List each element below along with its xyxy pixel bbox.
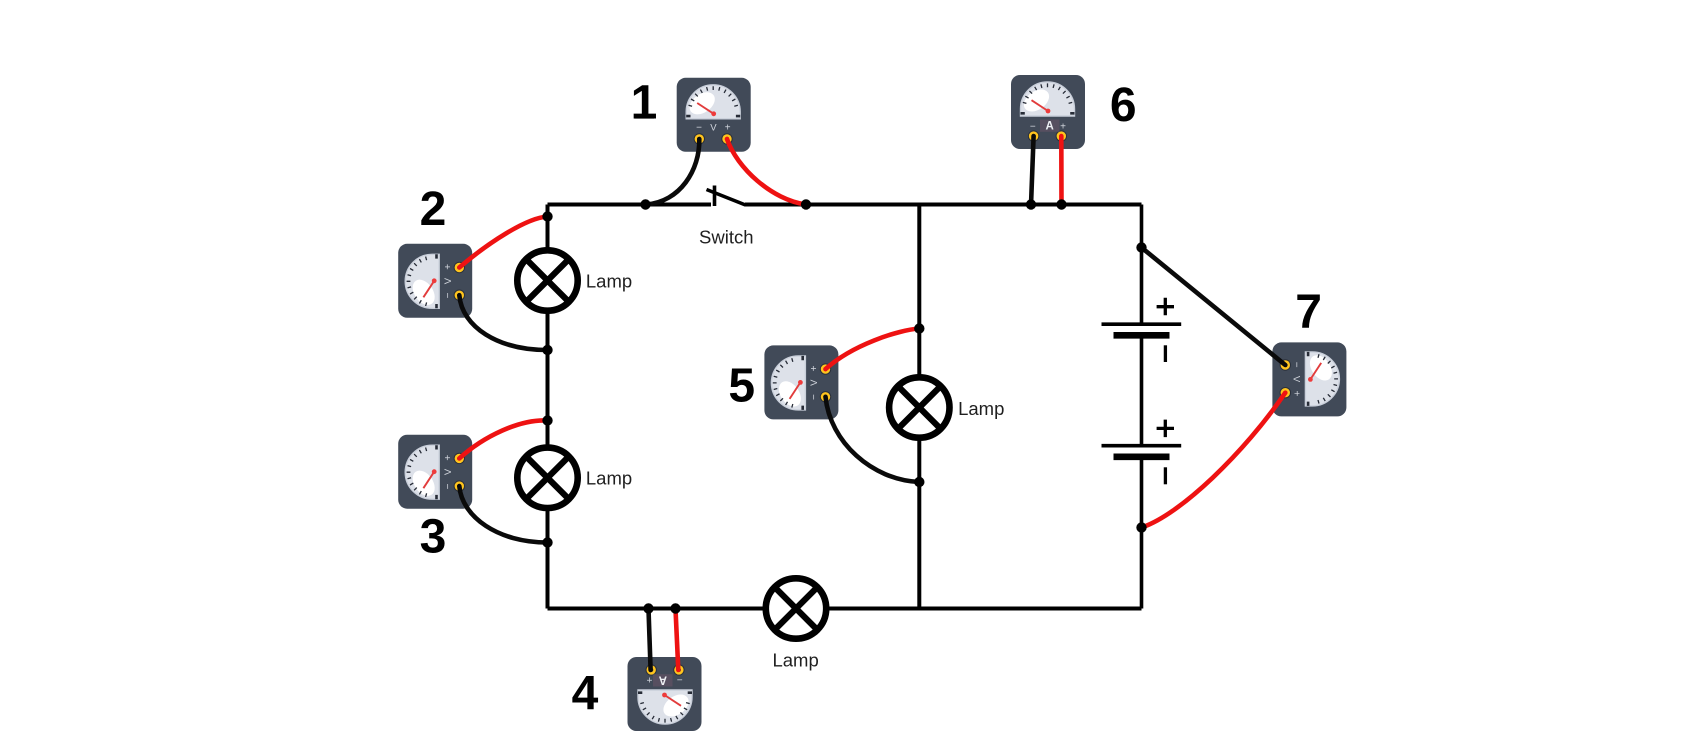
meter 2 voltmeter lead red <box>459 217 547 268</box>
ammeter U4 <box>628 657 702 731</box>
lamp L2 <box>517 448 577 508</box>
wire middle rail <box>917 205 921 609</box>
wire right rail middle <box>1140 337 1144 446</box>
node lamp4 bottom <box>914 477 924 487</box>
battery B2 plus label <box>1157 420 1174 438</box>
battery B1 minus label <box>1164 345 1167 362</box>
node lamp1 bottom <box>542 345 552 355</box>
battery B2 minus label <box>1164 467 1167 484</box>
node lamp2 bottom <box>542 537 552 547</box>
voltmeter U1 <box>677 78 751 152</box>
svg-text:6: 6 <box>1110 79 1137 132</box>
meter 3 voltmeter lead red <box>459 420 547 458</box>
svg-text:Lamp: Lamp <box>586 271 632 292</box>
svg-text:Lamp: Lamp <box>958 398 1004 419</box>
svg-text:4: 4 <box>572 668 599 721</box>
voltmeter U5 <box>764 345 838 419</box>
wire top rail right segment <box>745 203 1142 207</box>
wire top rail left segment <box>548 203 712 207</box>
ammeter U6 <box>1011 75 1085 149</box>
meter 1 voltmeter lead black <box>646 139 699 205</box>
wire right rail upper <box>1140 205 1144 325</box>
svg-text:Switch: Switch <box>699 226 754 247</box>
meter 3 voltmeter lead black <box>459 486 547 542</box>
meter 5 voltmeter lead red <box>826 329 920 370</box>
meter 4 ammeter lead black <box>649 609 651 670</box>
battery B1 negative plate <box>1114 332 1170 339</box>
meter 1 voltmeter lead red <box>727 139 806 205</box>
node switch left <box>640 199 650 209</box>
battery B1 positive plate <box>1102 322 1182 326</box>
node switch right <box>801 199 811 209</box>
meter 7 voltmeter lead black <box>1142 248 1286 366</box>
svg-text:2: 2 <box>420 183 447 236</box>
node lamp4 top <box>914 323 924 333</box>
node lamp2 top <box>542 415 552 425</box>
meter 2 voltmeter lead black <box>459 295 547 350</box>
meter 6 ammeter lead red <box>1059 136 1064 205</box>
lamp L1 <box>517 250 577 310</box>
svg-text:1: 1 <box>631 77 658 130</box>
node ammeter4 right <box>670 603 680 613</box>
svg-text:Lamp: Lamp <box>772 650 818 671</box>
node ammeter6 minus <box>1026 199 1036 209</box>
node battery bottom <box>1136 522 1146 532</box>
svg-text:7: 7 <box>1295 286 1322 339</box>
lamp L4 <box>889 377 949 437</box>
battery B2 positive plate <box>1102 444 1182 448</box>
voltmeter U2 <box>398 244 472 318</box>
svg-text:Lamp: Lamp <box>586 468 632 489</box>
meter 4 ammeter lead red <box>676 609 679 670</box>
wire right rail lower <box>1140 458 1144 609</box>
svg-text:5: 5 <box>728 360 755 413</box>
meter 5 voltmeter lead black <box>826 397 920 482</box>
voltmeter U7 <box>1272 342 1346 416</box>
meter 6 ammeter lead black <box>1031 136 1034 205</box>
meter 7 voltmeter lead red <box>1142 393 1286 528</box>
lamp L3 <box>766 578 826 638</box>
node lamp1 top <box>542 211 552 221</box>
node ammeter6 plus <box>1056 199 1066 209</box>
wire left rail <box>546 205 550 609</box>
switch S1 <box>707 186 746 207</box>
battery B2 negative plate <box>1114 453 1170 460</box>
node battery top <box>1136 242 1146 252</box>
wire bottom rail <box>548 607 1142 611</box>
svg-text:3: 3 <box>420 511 447 564</box>
battery B1 plus label <box>1157 298 1174 316</box>
voltmeter U3 <box>398 435 472 509</box>
node ammeter4 left <box>643 603 653 613</box>
